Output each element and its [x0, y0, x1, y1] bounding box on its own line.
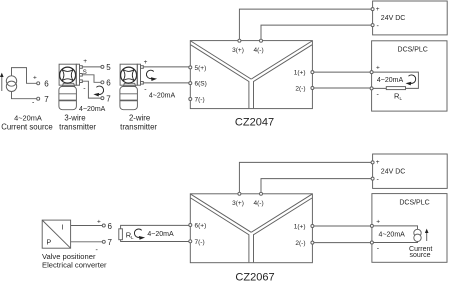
svg-text:Electrical converter: Electrical converter [42, 261, 107, 270]
svg-text:2(-): 2(-) [295, 86, 305, 93]
svg-text:3-wire: 3-wire [64, 114, 85, 123]
svg-text:4~20mA: 4~20mA [79, 106, 106, 113]
wire V1 minus to node 7 (bottom) [71, 241, 103, 243]
svg-text:+: + [97, 219, 101, 226]
wire loop to module U2 inputs [121, 225, 189, 241]
value label 4~20mA of T1 [79, 106, 106, 113]
svg-text:6(+): 6(+) [195, 223, 207, 230]
transmitter T2 head circle [121, 67, 137, 83]
node 6 of T1 [101, 79, 111, 88]
node 6 (current source output +) [33, 75, 49, 89]
transmitter T1 head circle [60, 67, 76, 83]
label: 2-wire transmitter [120, 114, 157, 132]
value label 4~20mA (bottom loop) [147, 231, 174, 238]
transmitter T2 terminal strip [137, 64, 143, 85]
svg-text:4(-): 4(-) [254, 47, 264, 54]
svg-text:6: 6 [44, 80, 49, 89]
svg-text:+: + [144, 59, 148, 66]
wire T1 S to node 6 [82, 75, 101, 83]
value label 4~20mA of T2 [149, 92, 176, 99]
svg-text:6: 6 [108, 222, 113, 231]
current source CS1 (4~20mA current source symbol) [6, 76, 16, 92]
svg-text:24V DC: 24V DC [381, 168, 406, 175]
power supply PS1 24V DC box [371, 1, 447, 35]
wire CS1 minus to node 7 [12, 92, 37, 99]
svg-text:+: + [33, 75, 37, 82]
svg-text:7: 7 [108, 238, 113, 247]
resistor RL (load resistor, top DCS) [386, 87, 405, 101]
svg-text:4(-): 4(-) [254, 200, 264, 207]
wire U1 pin3 to 24VDC + [239, 9, 371, 39]
svg-text:5(+): 5(+) [195, 65, 207, 72]
node 7 (current source output -) [32, 95, 49, 107]
svg-text:I: I [62, 225, 64, 232]
svg-text:3(+): 3(+) [232, 200, 244, 207]
svg-text:3(+): 3(+) [232, 47, 244, 54]
U2 pin 6(+) [189, 223, 206, 230]
svg-text:transmitter: transmitter [59, 123, 96, 132]
current loop arrow of T1 [93, 86, 103, 96]
svg-text:-: - [377, 92, 380, 99]
label: Current source (bottom DCS) [409, 246, 432, 259]
wire T1 plus to node 5 [82, 66, 101, 68]
U1 pin 1(+) [294, 70, 314, 77]
pin labels + S - of T1 [83, 58, 88, 93]
wire T1 minus to node 7 [82, 81, 101, 98]
svg-text:7: 7 [44, 95, 49, 104]
svg-text:4~20mA: 4~20mA [379, 231, 406, 238]
wire U2 pin3 to 24VDC + (bottom) [239, 162, 371, 192]
isolator module U1 CZ2047 body [190, 41, 312, 109]
svg-text:1(+): 1(+) [294, 224, 306, 231]
label: Valve positioner Electrical converter [42, 252, 107, 270]
U1 pin 6(S) [189, 81, 207, 88]
U2 pin 2(-) [295, 240, 314, 247]
wire U2 pin4 to 24VDC - (bottom) [261, 179, 371, 193]
svg-text:+: + [376, 159, 380, 166]
svg-text:1(+): 1(+) [294, 70, 306, 77]
svg-text:2(-): 2(-) [295, 240, 305, 247]
svg-text:source: source [409, 252, 430, 259]
wire DCS input loop (bottom) [373, 226, 417, 243]
svg-text:Current source: Current source [1, 123, 53, 132]
resistor RL (bottom loop) [119, 229, 134, 240]
value label 4~20mA in DCS (top) [377, 77, 404, 84]
wire U1 pin4 to 24VDC - [261, 25, 371, 39]
svg-text:-: - [144, 87, 147, 94]
svg-text:L: L [400, 96, 403, 101]
svg-text:24V DC: 24V DC [381, 15, 406, 22]
pin labels + - of T2 [144, 59, 148, 94]
transmitter T2 (2-wire transmitter) housing [120, 64, 137, 110]
U2 pin 7(-) [189, 239, 205, 246]
label CZ2047 [235, 117, 274, 129]
power supply PS2 24V DC box (bottom) [371, 154, 447, 188]
label: 3-wire transmitter [59, 114, 96, 132]
svg-text:7: 7 [106, 94, 111, 103]
U2 pin 4(-) [254, 192, 264, 207]
svg-text:+: + [83, 58, 87, 65]
svg-text:+: + [376, 6, 380, 13]
wire U1 pin2 to DCS - [314, 87, 370, 89]
svg-text:4~20mA: 4~20mA [149, 92, 176, 99]
transmitter T1 terminal strip [76, 64, 82, 85]
svg-text:4~20mA: 4~20mA [14, 114, 42, 123]
svg-text:transmitter: transmitter [120, 123, 157, 132]
value label 4~20mA in DCS (bottom) [379, 231, 406, 238]
wire U1 pin1 to DCS + [314, 71, 370, 73]
DCS/PLC box (top) [370, 41, 447, 111]
U1 pin 7(-) [189, 97, 205, 104]
svg-text:6: 6 [106, 79, 111, 88]
svg-text:DCS/PLC: DCS/PLC [398, 47, 428, 54]
current loop arrow of T2 [146, 70, 157, 81]
svg-text:4~20mA: 4~20mA [377, 77, 404, 84]
svg-text:+: + [376, 65, 380, 72]
transmitter T1 (3-wire transmitter) housing [59, 64, 77, 110]
svg-text:-: - [96, 247, 99, 254]
svg-text:5: 5 [106, 63, 111, 72]
svg-text:-: - [377, 246, 380, 253]
U1 pin 4(-) [254, 39, 264, 54]
node 6 (bottom row) [97, 219, 113, 231]
current source CS2 inside DCS (bottom) [414, 229, 421, 241]
U1 pin 2(-) [295, 86, 314, 93]
svg-text:P: P [47, 240, 52, 247]
svg-text:4~20mA: 4~20mA [147, 231, 174, 238]
node 5 [101, 63, 111, 72]
wire U2 pin2 to DCS - (bottom) [314, 242, 371, 244]
I/P converter V1 (valve positioner) [42, 220, 70, 248]
wire V1 plus to node 6 (bottom) [71, 225, 103, 227]
label CZ2067 [235, 272, 274, 284]
U1 pin 5(+) [189, 65, 206, 72]
svg-text:CZ2047: CZ2047 [235, 117, 274, 129]
svg-text:-: - [377, 177, 380, 184]
wire DCS input loop (top) [373, 72, 418, 88]
U2 pin 1(+) [294, 224, 314, 231]
label: 4~20mA Current source [1, 114, 53, 132]
svg-text:7(-): 7(-) [195, 97, 205, 104]
current loop arrow in DCS (top) [406, 75, 416, 85]
wire T2 plus to module pin 5(+) [143, 66, 189, 68]
svg-text:-: - [32, 100, 35, 107]
wire T2 minus to module pin 6(S) [143, 82, 189, 84]
svg-text:-: - [83, 86, 86, 93]
svg-text:DCS/PLC: DCS/PLC [399, 199, 429, 206]
wire CS1 plus to node 6 [12, 68, 37, 84]
svg-text:CZ2067: CZ2067 [235, 272, 274, 284]
isolator module U2 CZ2067 body [190, 194, 312, 263]
current loop arrow (bottom loop) [134, 229, 145, 240]
wire U2 pin1 to DCS + (bottom) [314, 225, 371, 227]
svg-text:2-wire: 2-wire [129, 114, 150, 123]
node 7 (bottom row) [96, 238, 113, 254]
direction arrow of CS2 [425, 229, 429, 241]
svg-text:7(-): 7(-) [195, 239, 205, 246]
U2 pin 3(+) [232, 192, 244, 207]
U1 pin 3(+) [232, 39, 244, 54]
svg-text:+: + [376, 218, 380, 225]
svg-text:-: - [377, 23, 380, 30]
node 7 of T1 [101, 94, 111, 103]
DCS/PLC box (bottom) [370, 194, 447, 263]
current direction arrow of CS1 [0, 73, 4, 91]
svg-text:L: L [131, 235, 134, 240]
svg-text:6(S): 6(S) [195, 81, 207, 88]
